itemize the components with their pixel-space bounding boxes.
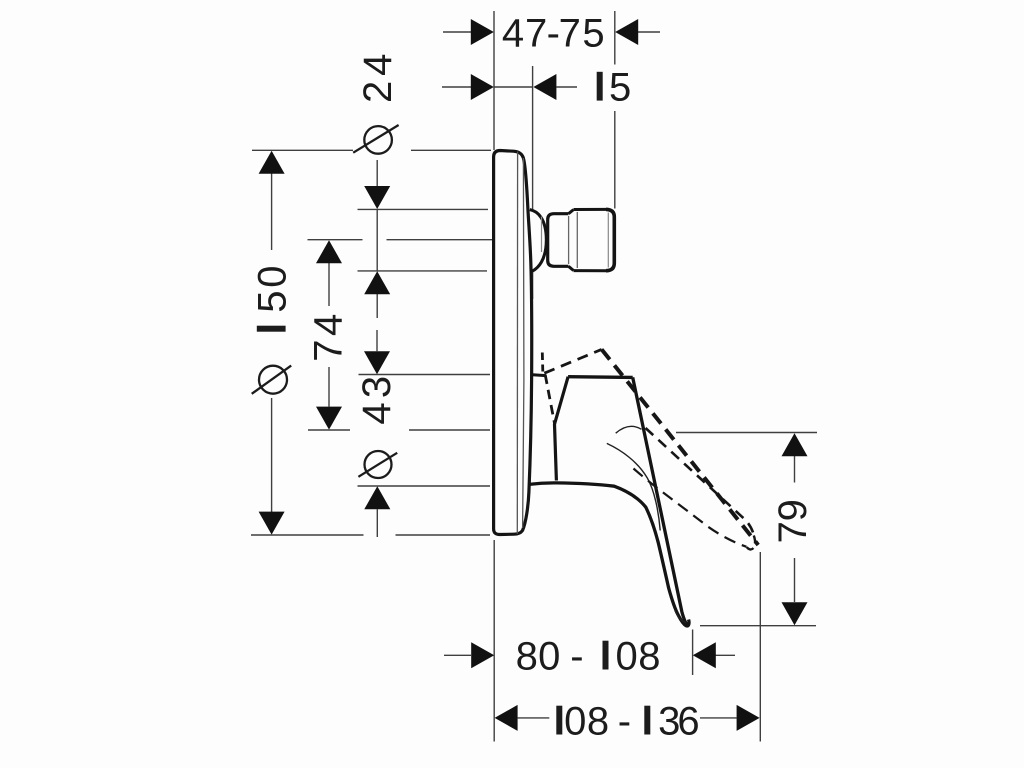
arrow 108-136 right bbox=[737, 705, 760, 731]
spout step top bbox=[569, 210, 574, 214]
wire: 47-75 dimension line left stem bbox=[443, 31, 471, 33]
svg-text:0: 0 bbox=[564, 700, 586, 744]
handle tip inner arc bbox=[675, 611, 686, 623]
wire: 47-75 dimension line right stem bbox=[638, 31, 660, 33]
handle hub top edge bbox=[568, 375, 633, 379]
svg-text:7: 7 bbox=[771, 521, 815, 543]
wire: handle collar top extension bbox=[359, 374, 491, 376]
svg-text:4: 4 bbox=[355, 402, 399, 424]
wire: dia43 chain lower stem bbox=[376, 509, 378, 537]
label 74 rotated bbox=[307, 314, 351, 362]
wire: plate front face extension lower bbox=[532, 272, 534, 299]
svg-text:6: 6 bbox=[677, 700, 699, 744]
svg-text:-: - bbox=[618, 700, 631, 744]
wire: plate top extension left bbox=[252, 149, 353, 151]
wire: dashed lever tip vertical extension bbox=[759, 552, 761, 742]
wire: spout axis extension right bbox=[387, 239, 493, 241]
arrow 108-136 left bbox=[495, 705, 518, 731]
svg-text:7: 7 bbox=[525, 12, 547, 56]
svg-text:5: 5 bbox=[609, 66, 631, 110]
wire: handle pivot axis extension right bbox=[409, 429, 490, 431]
label 80 - 108 bbox=[516, 635, 661, 679]
arrow 47-75 right bbox=[615, 19, 638, 45]
spout ridge line 1 bbox=[568, 216, 570, 264]
wire: plate top extension right bbox=[411, 149, 491, 151]
wire: 79 chain lower stem bbox=[794, 558, 796, 602]
wire: 15 dimension line left stem bbox=[442, 86, 471, 88]
arrow dia43 down bbox=[364, 351, 390, 374]
svg-text:4: 4 bbox=[307, 314, 351, 336]
wire: spout axis extension left bbox=[308, 239, 363, 241]
wire: dia24 chain lower stem bbox=[376, 294, 378, 318]
wire: spout bottom extension bbox=[358, 270, 488, 272]
arrow dia24 up bbox=[364, 271, 390, 294]
label dia symbol of 150 bbox=[252, 366, 292, 394]
svg-text:7: 7 bbox=[307, 339, 351, 361]
svg-text:0: 0 bbox=[615, 635, 637, 679]
arrow 74 up bbox=[316, 240, 342, 263]
svg-text:8: 8 bbox=[587, 700, 609, 744]
handle highlight arc long bbox=[607, 443, 660, 530]
wire: solid lever tip horizontal extension bbox=[700, 625, 816, 627]
arrow dia43 up bbox=[364, 486, 390, 509]
wire: solid lever tip vertical extension bbox=[692, 630, 694, 676]
dashed raised lever left edge bbox=[545, 375, 554, 424]
handle highlight arc short bbox=[616, 426, 642, 433]
handle hub left edge bbox=[555, 377, 569, 481]
svg-text:7: 7 bbox=[559, 12, 581, 56]
arrow 47-75 left bbox=[471, 19, 494, 45]
spout cylinder right face bbox=[606, 209, 614, 270]
svg-text:0: 0 bbox=[251, 265, 295, 287]
wire: wall plane extension above plate bbox=[493, 11, 495, 150]
spout bump shading line bbox=[541, 217, 543, 253]
label 79 rotated bbox=[771, 499, 815, 543]
wire: dia24 chain middle stem bbox=[376, 209, 378, 271]
wire: 15 dimension line right stem bbox=[556, 86, 577, 88]
handle lever front edge with tip bbox=[633, 377, 689, 625]
wire: 74 chain lower stem bbox=[328, 367, 330, 407]
svg-text:-: - bbox=[570, 635, 583, 679]
svg-text:9: 9 bbox=[771, 499, 815, 521]
wire: 15 dimension line middle bbox=[494, 86, 533, 88]
dashed raised lever cap left vertical bbox=[541, 353, 544, 372]
wire: 79 chain upper stem bbox=[794, 456, 796, 483]
spout ridge line 2 bbox=[576, 212, 578, 268]
arrow 79 down bbox=[782, 602, 808, 625]
dashed raised lever top edge to peak bbox=[544, 349, 601, 373]
svg-text:8: 8 bbox=[516, 635, 538, 679]
wire: dia43 chain upper stem bbox=[376, 330, 378, 351]
dashed raised lever lower edge bbox=[646, 428, 754, 536]
wire: handle pivot axis extension left bbox=[308, 429, 350, 431]
svg-text:2: 2 bbox=[356, 81, 400, 103]
wire: spout tip extension lower bbox=[614, 111, 616, 209]
label dia symbol of 24 bbox=[353, 125, 398, 154]
plate rim inner line 1 bbox=[516, 152, 518, 534]
spout cylinder bottom edge bbox=[574, 269, 609, 272]
wire: dia150 chain lower stem bbox=[271, 398, 273, 512]
arrow 74 down bbox=[316, 407, 342, 430]
label 150 rotated bbox=[251, 265, 295, 331]
svg-text:4: 4 bbox=[356, 54, 400, 76]
wire: 108-136 dimension line left stem bbox=[518, 717, 550, 719]
wire: dia24 chain upper stem bbox=[376, 160, 378, 187]
label 108 - 136 bbox=[556, 700, 699, 744]
wire: handle hub bottom extension bbox=[358, 485, 491, 487]
dashed raised lever main top edge bbox=[602, 349, 759, 545]
wire: plate front face extension upper bbox=[532, 66, 534, 209]
arrow dia150 down bbox=[259, 512, 285, 535]
dashed raised lever tip arc bbox=[747, 536, 756, 550]
label dia symbol of 43 bbox=[358, 451, 397, 478]
label 24 rotated bbox=[356, 54, 400, 103]
dimension arrowheads bbox=[259, 19, 808, 731]
svg-text:3: 3 bbox=[355, 376, 399, 398]
svg-text:5: 5 bbox=[582, 12, 604, 56]
spout flange bbox=[548, 214, 569, 267]
svg-text:5: 5 bbox=[251, 290, 295, 312]
wire: handle pivot axis extension far right bbox=[676, 432, 817, 434]
wire: 80-108 dimension line left stem bbox=[444, 654, 471, 656]
spout step bottom bbox=[569, 266, 574, 270]
wire: plate bottom extension right bbox=[396, 534, 491, 536]
arrow 80-108 left bbox=[471, 642, 494, 668]
dimension labels bbox=[251, 12, 815, 744]
label 43 rotated bbox=[355, 376, 399, 425]
handle underside curve bbox=[529, 483, 689, 626]
wire: plate bottom extension left bbox=[251, 534, 364, 536]
arrow dia150 up bbox=[259, 151, 285, 174]
handle collar top line bbox=[533, 373, 546, 377]
wire: 80-108 dimension line right stem bbox=[716, 654, 736, 656]
spout cylinder top edge bbox=[574, 208, 609, 211]
arrow dia24 down bbox=[364, 186, 390, 209]
wire: 108-136 dimension line right stem bbox=[700, 717, 737, 719]
escutcheon plate outline bbox=[494, 151, 532, 535]
label 15 bbox=[597, 66, 632, 110]
wire: dia150 chain upper stem bbox=[271, 173, 273, 250]
label 47-75 bbox=[502, 12, 605, 56]
svg-text:8: 8 bbox=[638, 635, 660, 679]
plate rim inner line 2 bbox=[523, 158, 524, 528]
wire: spout tip extension upper bbox=[614, 11, 616, 65]
spout dome bump bbox=[530, 210, 547, 272]
arrow 15 right bbox=[533, 74, 556, 100]
wire: wall plane extension below plate bbox=[493, 540, 495, 742]
svg-text:4: 4 bbox=[502, 12, 524, 56]
arrow 80-108 right bbox=[693, 642, 716, 668]
dashed raised lever highlight curve bbox=[634, 469, 747, 547]
arrow 15 left bbox=[471, 74, 494, 100]
svg-text:0: 0 bbox=[538, 635, 560, 679]
extension lines bbox=[251, 11, 817, 742]
wire: 74 chain upper stem bbox=[328, 263, 330, 306]
wire: spout top extension bbox=[358, 208, 489, 210]
arrow 79 up bbox=[782, 433, 808, 456]
spout ridge line 3 bbox=[607, 213, 609, 268]
